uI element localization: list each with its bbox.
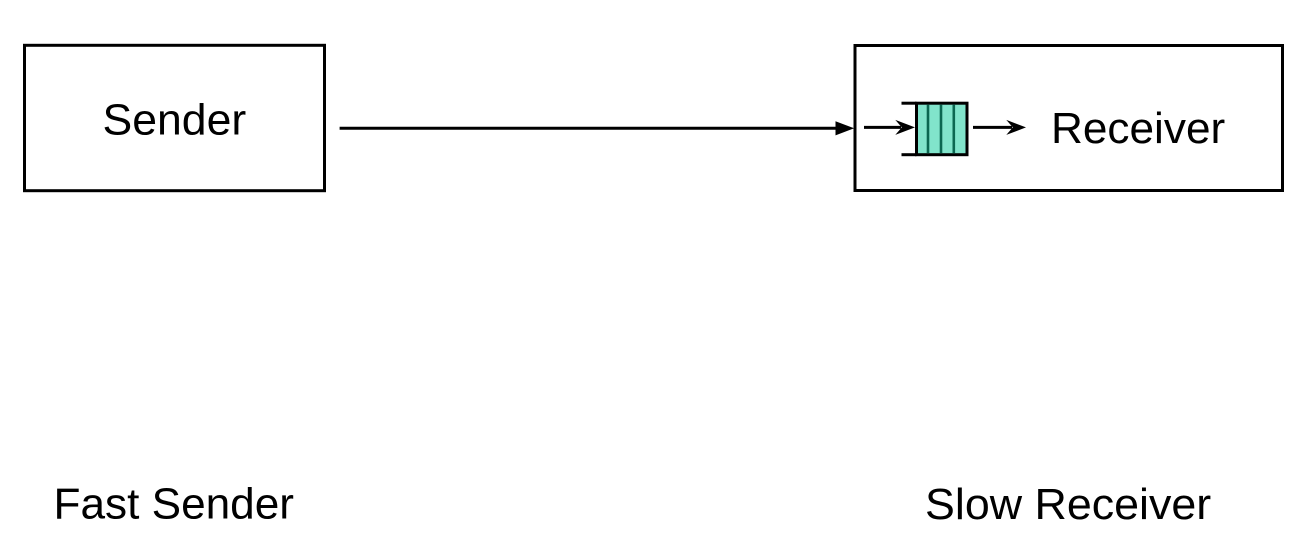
queue cell divider 1 — [927, 105, 930, 154]
queue cell divider 2 — [940, 105, 943, 154]
wire: arrow out of queue — [973, 126, 1012, 129]
svg-text:Fast Sender: Fast Sender — [54, 480, 295, 529]
svg-text:Slow Receiver: Slow Receiver — [925, 480, 1211, 529]
queue buffer box — [917, 103, 968, 155]
wire: arrow into queue — [864, 126, 901, 129]
queue buffer top rail — [902, 102, 917, 105]
svg-text:Sender: Sender — [103, 95, 247, 144]
queue buffer bottom rail — [902, 153, 917, 156]
queue cell divider 3 — [952, 105, 955, 154]
receiver box — [855, 46, 1283, 191]
sender box — [25, 45, 325, 190]
svg-text:Receiver: Receiver — [1051, 104, 1225, 153]
wire: channel arrow from sender to receiver — [340, 127, 837, 130]
